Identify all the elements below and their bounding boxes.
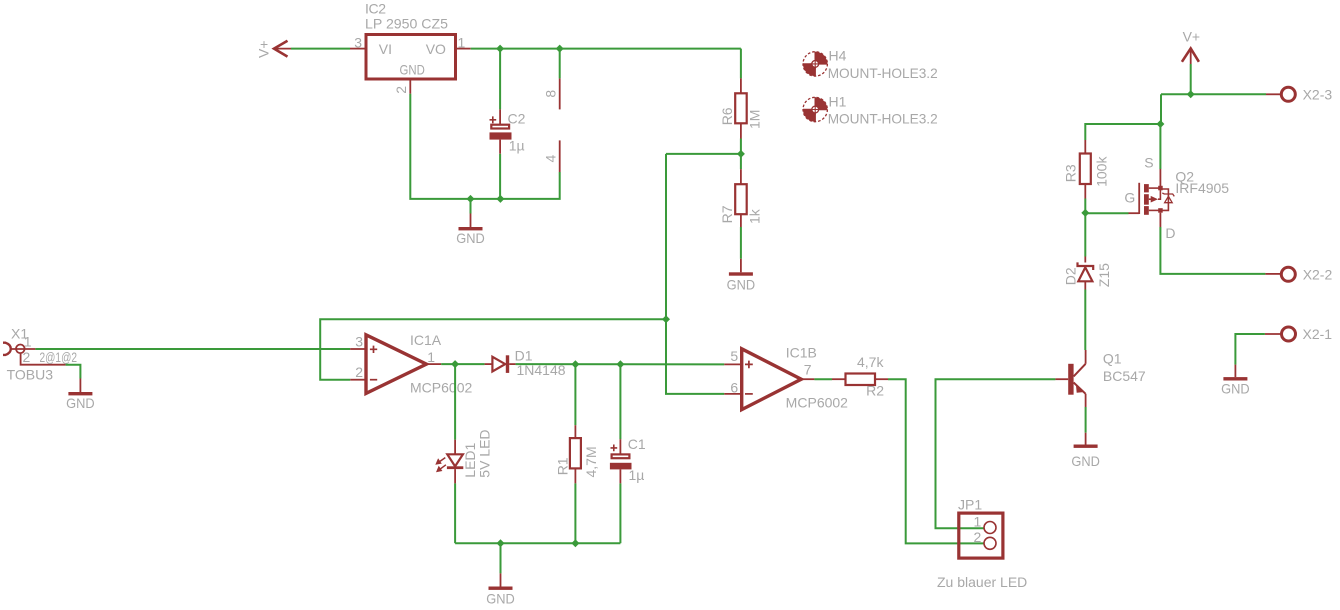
svg-text:V+: V+ [1183, 28, 1201, 44]
svg-text:1k: 1k [747, 208, 763, 224]
svg-text:H4: H4 [829, 48, 847, 64]
svg-text:Q1: Q1 [1103, 350, 1122, 366]
wire R3 to gate node [1084, 199, 1086, 214]
ground symbol at X1 [66, 379, 95, 412]
svg-text:C2: C2 [508, 111, 526, 127]
node source branch junction [1156, 120, 1164, 128]
wire R2 to JP1 pin 2 [888, 379, 984, 543]
wire R6 to junction [740, 139, 742, 170]
transistor Q1 BC547 [1055, 350, 1146, 407]
resistor R2 4,7k [832, 354, 888, 398]
node divider junction [737, 150, 745, 158]
node V+ rail junction [1187, 90, 1195, 98]
resistor R7 1k [719, 169, 763, 227]
svg-text:4,7k: 4,7k [857, 354, 884, 370]
svg-text:1µ: 1µ [629, 467, 645, 483]
svg-text:MOUNT-HOLE3.2: MOUNT-HOLE3.2 [828, 111, 938, 127]
svg-text:2@1@2: 2@1@2 [40, 349, 78, 365]
wire IC1B output to R2 [814, 378, 832, 380]
wire R7 to ground [740, 227, 742, 259]
svg-text:100k: 100k [1094, 156, 1110, 187]
diode D1 1N4148 [485, 348, 566, 379]
svg-text:R2: R2 [866, 382, 884, 398]
wire Q1 base to JP1 pin 1 [936, 379, 1056, 528]
svg-text:1M: 1M [747, 110, 763, 129]
svg-text:3: 3 [354, 35, 362, 51]
svg-text:5V LED: 5V LED [477, 429, 493, 477]
wire divider junction to left [666, 153, 741, 155]
svg-text:R3: R3 [1063, 164, 1079, 182]
connector X1 TOBU3 [3, 325, 77, 382]
IC2 pin 1 [456, 48, 471, 50]
supply symbol V+ (left) [256, 40, 292, 58]
svg-text:V+: V+ [256, 40, 272, 58]
wire source column [1159, 124, 1161, 169]
wire D1 to IC1B non-inverting input [516, 363, 725, 365]
svg-text:GND: GND [1221, 381, 1250, 397]
node feedback junction [662, 315, 670, 323]
ground symbol at X2-1 [1221, 365, 1250, 397]
ground symbol below bottom rail [486, 573, 515, 606]
svg-text:MOUNT-HOLE3.2: MOUNT-HOLE3.2 [828, 65, 938, 81]
wire gate node to Q2 gate [1085, 212, 1128, 214]
ground symbol below C2 rail [456, 199, 485, 246]
svg-text:GND: GND [727, 277, 756, 293]
svg-text:8: 8 [542, 90, 558, 98]
svg-text:Zu blauer LED: Zu blauer LED [937, 574, 1027, 590]
connector X2-3 [1266, 86, 1332, 102]
node gate junction [1081, 209, 1089, 217]
node ground rail junction at GND tap [467, 195, 475, 203]
svg-text:5: 5 [730, 348, 738, 364]
op-amp IC1A MCP6002 [350, 332, 472, 396]
connector X2-1 [1265, 326, 1332, 342]
svg-text:IC2: IC2 [365, 1, 386, 17]
svg-text:MCP6002: MCP6002 [786, 395, 849, 411]
wire junction to R3 [1085, 124, 1160, 140]
svg-text:4: 4 [542, 155, 558, 163]
svg-text:1: 1 [427, 349, 435, 365]
svg-text:D: D [1165, 225, 1175, 241]
voltage regulator IC2 LP 2950 CZ5 [350, 1, 471, 94]
wire V+ to IC2 pin 3 [291, 48, 350, 50]
node VO junction at C2 [496, 45, 504, 53]
supply symbol V+ (right) [1182, 28, 1200, 64]
svg-text:X2-3: X2-3 [1303, 86, 1333, 102]
IC2 pin 2 [409, 79, 411, 94]
wire IC1A feedback loop pin2 to divider node [320, 319, 666, 379]
wire LED1 to bottom rail [454, 483, 456, 543]
svg-text:GND: GND [400, 62, 425, 78]
svg-text:2: 2 [355, 364, 363, 380]
node bottom rail R1 junction [571, 539, 579, 547]
svg-text:3: 3 [355, 334, 363, 350]
svg-text:H1: H1 [829, 93, 847, 109]
wire IC2 pin2 down and ground rail [410, 94, 559, 199]
IC2 pin 3 [350, 48, 366, 50]
wire GND tap down [500, 543, 502, 573]
resistor R6 1M [719, 78, 763, 138]
svg-text:X2-2: X2-2 [1303, 266, 1333, 282]
svg-text:IC1B: IC1B [786, 345, 817, 361]
svg-text:G: G [1124, 189, 1135, 205]
wire VO rail corner down to R6 [740, 49, 742, 79]
svg-text:TOBU3: TOBU3 [7, 366, 54, 382]
wire pin8 to VO rail [559, 49, 561, 79]
svg-text:1: 1 [458, 35, 466, 51]
op-amp IC1B MCP6002 [724, 345, 848, 411]
wire X1 pin2 to ground [66, 365, 81, 379]
wire V+ rail to X2-3 [1161, 93, 1266, 95]
node bottom rail GND tap [497, 539, 505, 547]
ground symbol below R7 [727, 259, 756, 293]
svg-text:GND: GND [1071, 453, 1100, 469]
capacitor C2 1u [490, 109, 526, 153]
svg-text:IC1A: IC1A [410, 332, 442, 348]
svg-text:1: 1 [974, 514, 982, 530]
op-amp power pin 4 [559, 140, 561, 172]
node R1 tap [571, 360, 579, 368]
wire X2-1 to ground [1235, 334, 1265, 365]
svg-text:Z15: Z15 [1096, 263, 1112, 287]
wire IC1A output [441, 363, 484, 365]
svg-text:R1: R1 [554, 457, 570, 475]
resistor R3 100k [1063, 140, 1110, 199]
wire R1 to bottom rail [574, 483, 576, 543]
mount hole H4 [803, 48, 938, 81]
svg-text:2: 2 [974, 529, 982, 545]
wire Q1 emitter to ground [1085, 407, 1087, 433]
svg-text:IRF4905: IRF4905 [1175, 180, 1229, 196]
svg-text:MCP6002: MCP6002 [410, 380, 473, 396]
svg-text:R6: R6 [719, 107, 735, 125]
node C1 tap [616, 360, 624, 368]
svg-text:2: 2 [23, 349, 31, 365]
wire C2 column [499, 49, 501, 199]
svg-text:VI: VI [379, 41, 392, 57]
svg-text:4,7M: 4,7M [583, 446, 599, 477]
node IC1A output junction [451, 360, 459, 368]
node VO junction at power pin 8 [556, 45, 564, 53]
svg-text:R7: R7 [719, 205, 735, 223]
wire V+ down to rail [1190, 64, 1192, 94]
svg-text:C1: C1 [628, 436, 646, 452]
svg-text:2: 2 [393, 86, 409, 94]
zener diode D2 Z15 [1062, 213, 1111, 289]
wire Q2 drain to X2-2 [1160, 227, 1265, 274]
mount hole H1 [803, 93, 938, 126]
svg-text:X2-1: X2-1 [1303, 326, 1333, 342]
svg-text:JP1: JP1 [958, 496, 982, 512]
op-amp power pin 8 [559, 78, 561, 109]
svg-text:GND: GND [456, 230, 485, 246]
svg-text:1: 1 [24, 334, 32, 350]
connector X2-2 [1265, 266, 1332, 282]
ground symbol at Q1 [1071, 433, 1100, 469]
wire C1 to bottom rail [619, 483, 621, 543]
wire VO rail [471, 48, 741, 50]
svg-text:6: 6 [730, 380, 738, 396]
wire rail corner down to source node [1160, 94, 1162, 124]
svg-text:S: S [1144, 155, 1153, 171]
svg-text:D2: D2 [1062, 267, 1078, 285]
wire X1 pin1 to IC1A non-inverting input [35, 348, 350, 350]
LED1 5V LED [435, 364, 492, 483]
svg-text:GND: GND [486, 591, 515, 607]
wire bottom rail [455, 542, 620, 544]
svg-text:LP 2950 CZ5: LP 2950 CZ5 [365, 16, 448, 32]
node ground rail junction at C2 bottom [496, 195, 504, 203]
svg-text:BC547: BC547 [1103, 368, 1146, 384]
svg-text:GND: GND [66, 395, 95, 411]
svg-text:VO: VO [426, 41, 446, 57]
svg-text:7: 7 [804, 362, 812, 378]
wire divider sense vertical [665, 154, 667, 319]
capacitor C1 1u [610, 364, 646, 483]
transistor Q2 IRF4905 [1124, 155, 1229, 242]
jumper JP1 [958, 496, 1003, 558]
wire D2 to Q1 collector [1084, 290, 1086, 351]
svg-text:1µ: 1µ [509, 138, 525, 154]
wire junction down to IC1B inverting input [666, 319, 724, 394]
resistor R1 4,7M [554, 364, 599, 483]
